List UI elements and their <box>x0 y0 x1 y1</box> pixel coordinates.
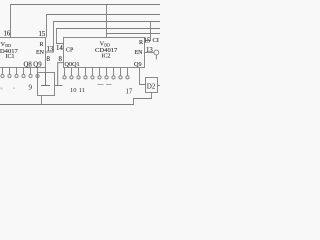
wire IC2 pin15 R up to rail <box>145 22 151 41</box>
ground IC2 pin8 <box>54 63 64 86</box>
svg-text:D2: D2 <box>147 82 156 90</box>
svg-text:8: 8 <box>47 56 51 63</box>
connector IC2 pin13 <box>145 52 155 54</box>
svg-text:10: 10 <box>70 87 77 94</box>
touch plate box <box>38 73 55 96</box>
svg-text:8: 8 <box>59 56 63 63</box>
svg-text:Q8: Q8 <box>24 61 33 68</box>
op IC2 CD4017 box <box>64 38 145 68</box>
IC2 output pins with terminals <box>63 68 129 80</box>
svg-text:R: R <box>39 42 43 48</box>
svg-text:EN: EN <box>135 50 144 56</box>
IC1 output pins with terminals <box>1 68 39 78</box>
wire IC1 pin15 rail <box>47 15 161 38</box>
svg-text:Q0Q1: Q0Q1 <box>65 61 80 68</box>
svg-text:IC2: IC2 <box>102 54 111 60</box>
background paper <box>0 0 160 110</box>
svg-text:Q9: Q9 <box>134 61 142 68</box>
wire plate box to bottom rail <box>41 96 43 105</box>
svg-text:9: 9 <box>29 84 33 92</box>
wire Q9 to D2 <box>140 68 146 85</box>
svg-text:VDD: VDD <box>1 41 12 48</box>
svg-text:11: 11 <box>79 87 85 94</box>
wire IC1 pin13 rail <box>46 22 161 53</box>
wire D2 right stub <box>158 85 161 87</box>
svg-text:15: 15 <box>144 37 151 44</box>
wire VDD branch to right edge <box>107 33 161 35</box>
svg-text:14: 14 <box>56 45 63 52</box>
svg-text:16: 16 <box>4 31 11 38</box>
ellipsis dash <box>98 84 112 86</box>
svg-text:15: 15 <box>39 31 46 38</box>
wire D2 bottom loop <box>0 93 152 105</box>
svg-text:EN: EN <box>36 50 45 56</box>
plate electrode <box>41 73 50 86</box>
svg-text:CP: CP <box>66 48 74 54</box>
op IC1 CD4017 box <box>0 38 46 68</box>
svg-text:CI: CI <box>153 37 159 44</box>
wire IC2 pin14 CP rail <box>57 29 161 44</box>
svg-text:17: 17 <box>126 88 133 95</box>
svg-text:13: 13 <box>47 46 54 53</box>
faint terminal labels <box>1 88 3 90</box>
wire VDD drop to IC2 pin16 <box>106 5 108 38</box>
wire VDD rail top <box>11 5 161 38</box>
D2 box <box>146 78 158 93</box>
svg-text:R: R <box>139 40 143 46</box>
wire IC1 pin8 to touch plate <box>45 68 47 73</box>
svg-text:Q9: Q9 <box>33 61 42 68</box>
svg-text:IC1: IC1 <box>6 54 15 60</box>
